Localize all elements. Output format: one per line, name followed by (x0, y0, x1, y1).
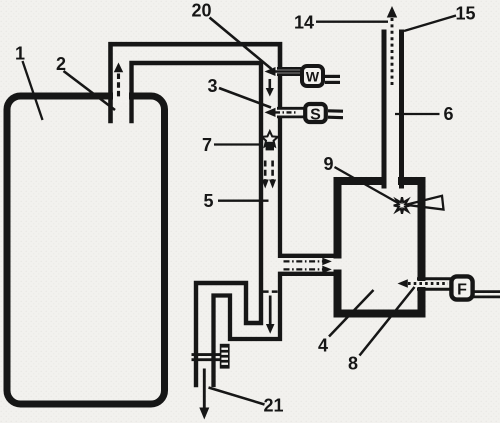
svg-text:2: 2 (56, 54, 66, 74)
arrow: solid down arrow into trap (266, 296, 275, 334)
label 5 leader (218, 200, 269, 202)
combustion chamber 4 top-right wall + right wall upper (402, 181, 422, 277)
label 4 (318, 336, 328, 356)
label 2 (56, 54, 66, 74)
label 3 leader (219, 88, 271, 108)
label 21 leader (209, 388, 265, 405)
label 5 (203, 191, 213, 211)
label 14 (294, 13, 314, 33)
combustion chamber 4 right wall lower + bottom wall + left wall lower (338, 274, 422, 314)
svg-text:21: 21 (263, 396, 283, 416)
svg-text:9: 9 (323, 154, 333, 174)
arrow: drain outlet arrow 21 (199, 369, 209, 420)
label 6 (443, 104, 453, 124)
svg-text:7: 7 (202, 135, 212, 155)
svg-text:6: 6 (443, 104, 453, 124)
combustion chamber 4 upper-left wall + top-left wall (338, 181, 383, 255)
injector W box (302, 66, 323, 86)
spark igniter 9 (starburst) (394, 197, 411, 214)
svg-text:5: 5 (203, 191, 213, 211)
injector F port double line (417, 279, 451, 290)
svg-text:20: 20 (191, 1, 211, 21)
label 15 (455, 4, 475, 24)
label 4 leader (329, 290, 374, 337)
injector S box (305, 104, 326, 124)
svg-text:W: W (306, 69, 320, 85)
svg-text:14: 14 (294, 13, 314, 33)
injector W port double line (277, 68, 301, 74)
label 8 (348, 354, 358, 374)
arrow: dashed up-flow arrow in riser pipe 2 (114, 63, 123, 100)
wire: riser pipe 2 right wall + top duct inner wall + downcomer left wall + trap outer contour (132, 63, 262, 385)
svg-text:3: 3 (207, 76, 217, 96)
label 6 leader (395, 113, 440, 115)
wire: downcomer right wall + branch duct top wall to chamber (280, 119, 334, 256)
arrow: branch duct flow arrows into chamber (dash-dot) (284, 258, 332, 274)
S supply lines (328, 111, 343, 118)
label 21 (263, 396, 283, 416)
drain valve (hatched gate) (192, 344, 230, 369)
svg-text:4: 4 (318, 336, 328, 356)
svg-text:8: 8 (348, 354, 358, 374)
injector F box (451, 276, 472, 299)
F supply lines (473, 292, 500, 297)
chimney 6 right wall (399, 32, 404, 186)
tank 1 (fuel tank, rounded rectangle) (7, 96, 165, 404)
arrow: W injection into duct (265, 67, 301, 76)
label 2 leader (64, 71, 116, 110)
wire: branch duct bottom wall + downcomer lower right wall + trap inner contour (U-bend) (214, 274, 335, 385)
arrow: dotted exhaust arrow 15 in chimney (387, 6, 397, 85)
svg-text:15: 15 (455, 4, 475, 24)
label 14 leader (316, 21, 388, 23)
svg-text:S: S (310, 107, 321, 124)
valve symbol 7 (star with square) on duct (262, 131, 278, 150)
label 7 (202, 135, 212, 155)
label 20 (191, 1, 211, 21)
label 7 leader (214, 143, 262, 145)
injector S port double line (277, 108, 304, 117)
chimney 6 left wall (382, 32, 387, 186)
arrow: twin dashed down-flow arrows in duct (262, 161, 276, 189)
wire: riser pipe 2 left wall + top duct outer wall + downcomer right wall upper (111, 44, 281, 121)
label 15 leader (404, 16, 456, 32)
arrow: S injection dash-dot into duct (265, 108, 298, 117)
gap in tank top for pipe 2 (113, 91, 129, 103)
label 8 leader (360, 287, 415, 356)
wire: downcomer right wall between port W and port S (278, 77, 282, 105)
label 1 (15, 44, 25, 64)
label 3 (207, 76, 217, 96)
W supply lines (325, 76, 340, 82)
label 1 leader (23, 61, 43, 120)
dashed level line at duct bottom (263, 290, 278, 293)
label 9 (323, 154, 333, 174)
label 20 leader (210, 18, 272, 70)
svg-text:F: F (457, 282, 467, 299)
igniter nozzle wedge (behind chamber wall) (406, 196, 444, 210)
arrow: F fuel dotted arrow into chamber (398, 279, 449, 288)
label 9 leader (335, 167, 399, 203)
arrow: down-flow arrow in duct below W port (266, 79, 274, 97)
svg-text:1: 1 (15, 44, 25, 64)
